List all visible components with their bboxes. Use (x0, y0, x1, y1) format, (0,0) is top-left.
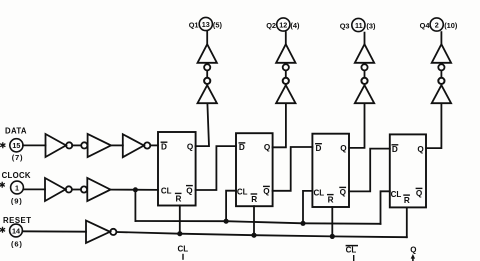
wire DATA input to inverter (23, 144, 46, 146)
wire Q1 output to buffer chain (196, 103, 209, 146)
svg-text:Q1: Q1 (189, 20, 199, 29)
svg-text:Q: Q (410, 246, 416, 255)
label Q3 pin 11(3) (340, 18, 376, 31)
node CL/FF2 junction (224, 219, 229, 224)
svg-text:CL: CL (161, 187, 172, 196)
svg-text:CL: CL (178, 245, 189, 254)
svg-text:CLOCK: CLOCK (2, 171, 31, 180)
svg-text:(4): (4) (290, 21, 300, 30)
svg-text:Q: Q (187, 142, 194, 151)
svg-text:13: 13 (202, 20, 210, 29)
svg-text:Q4: Q4 (420, 21, 431, 30)
svg-text:D: D (161, 142, 167, 151)
svg-text:Q: Q (417, 145, 424, 154)
label CLOCK input pin 1(9) (0, 171, 31, 205)
svg-text:11: 11 (355, 21, 363, 30)
wire inverter1 to inverter2 (data) (72, 144, 81, 146)
svg-text:15: 15 (12, 141, 20, 150)
label Q4 pin 2(10) (420, 18, 458, 31)
node CL/FF3 junction (300, 221, 305, 226)
svg-text:R: R (251, 195, 257, 204)
flip-flop FF2 (236, 133, 273, 206)
svg-text:DATA: DATA (5, 127, 27, 136)
node R/FF1 junction (177, 231, 182, 236)
svg-text:(6): (6) (11, 239, 23, 248)
output buffer chain Q3 (355, 32, 374, 104)
wire Q2 output to buffer chain (273, 103, 286, 147)
label Q1 pin 13(5) (189, 17, 223, 30)
svg-text:Q: Q (340, 144, 347, 153)
node clock junction (133, 187, 138, 192)
wire Q4 output to buffer chain (426, 103, 441, 148)
wire R riser FF2 (253, 206, 255, 235)
wire R riser FF4 (406, 207, 408, 237)
svg-text:D: D (239, 143, 245, 152)
output buffer chain Q1 (198, 31, 217, 104)
svg-text:R: R (176, 194, 182, 203)
svg-text:Q: Q (416, 189, 423, 198)
wire Q3-bar to D of FF4 (349, 149, 390, 192)
wire CL distribution line (135, 221, 380, 224)
label Q timing mark with arrow (410, 246, 416, 261)
svg-text:D: D (392, 145, 398, 154)
node R/FF3 junction (330, 234, 335, 239)
wire CL riser to FF4 (381, 191, 390, 224)
label DATA input pin 15(7) (0, 127, 27, 162)
svg-text:R: R (404, 196, 410, 205)
svg-text:2: 2 (435, 20, 439, 29)
svg-text:(9): (9) (11, 196, 23, 205)
inverter clock-1 (45, 178, 72, 201)
label CL timing mark (178, 245, 189, 260)
wire Q3 output to buffer chain (349, 103, 365, 147)
svg-text:(10): (10) (444, 21, 458, 30)
inverter reset (86, 221, 116, 244)
svg-text:CL: CL (314, 189, 325, 198)
wire inverter1 to inverter2 (clock) (72, 189, 81, 191)
svg-text:(5): (5) (213, 20, 223, 29)
svg-text:Q: Q (264, 143, 271, 152)
inverter data-3 (123, 134, 150, 157)
svg-text:1: 1 (15, 183, 19, 192)
flip-flop FF3 (312, 134, 349, 207)
flip-flop FF4 (390, 134, 426, 207)
wire R riser FF1 (179, 206, 181, 234)
wire RESET input to inverter (22, 230, 86, 232)
svg-text:D: D (316, 144, 322, 153)
svg-text:R: R (328, 196, 334, 205)
svg-text:(3): (3) (366, 21, 376, 30)
wire Q1-bar to D of FF2 (196, 146, 236, 190)
wire CLOCK input to inverter (23, 188, 45, 190)
wire inverter3 to D of FF1 (151, 144, 158, 146)
inverter data-2 (81, 134, 111, 157)
wire RESET distribution line (117, 232, 407, 237)
label CL-bar timing mark (346, 246, 358, 261)
inverter data-1 (46, 134, 73, 157)
svg-text:Q: Q (186, 186, 193, 195)
wire inverter2 to inverter3 (data) (111, 144, 123, 146)
output buffer chain Q4 (432, 31, 451, 103)
svg-text:Q: Q (263, 187, 270, 196)
wire R riser FF3 (331, 207, 333, 236)
svg-text:14: 14 (12, 226, 20, 235)
node R/FF2 junction (251, 233, 256, 238)
inverter clock-2 (81, 178, 111, 201)
label RESET input pin 14(6) (0, 216, 32, 249)
output buffer chain Q2 (276, 31, 295, 103)
svg-text:(7): (7) (12, 153, 24, 162)
wire CL riser to FF3 (303, 191, 312, 223)
svg-text:Q: Q (340, 188, 347, 197)
wire CL riser to FF2 (226, 191, 236, 222)
svg-text:CL: CL (237, 188, 248, 197)
svg-text:CL: CL (346, 246, 357, 255)
svg-text:Q2: Q2 (266, 21, 276, 30)
svg-text:CL: CL (391, 190, 402, 199)
wire clock net vertical drop (134, 190, 136, 221)
wire Q2-bar to D of FF3 (273, 147, 313, 191)
label Q2 pin 12(4) (266, 18, 300, 31)
wire clock inverter2 to CL of FF1 (111, 189, 159, 191)
svg-text:12: 12 (279, 20, 287, 29)
flip-flop FF1 (158, 132, 196, 206)
svg-text:Q3: Q3 (340, 21, 350, 30)
